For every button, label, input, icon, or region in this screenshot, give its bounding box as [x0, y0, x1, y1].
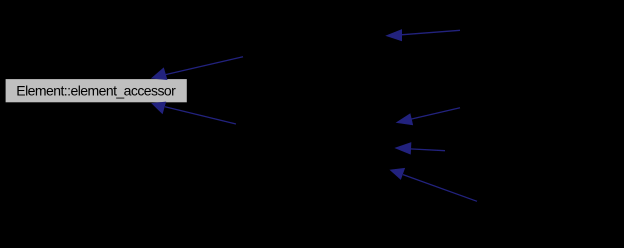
arrow 3 — [152, 102, 236, 124]
node Element::element_accessor — [5, 79, 187, 103]
svg-text:Element::element_accessor: Element::element_accessor — [16, 82, 176, 98]
arrow 6 — [391, 169, 477, 202]
arrow 5 — [396, 143, 445, 154]
arrow 2 — [152, 57, 243, 80]
arrow 4 — [397, 108, 460, 125]
arrow 1 — [387, 30, 460, 41]
